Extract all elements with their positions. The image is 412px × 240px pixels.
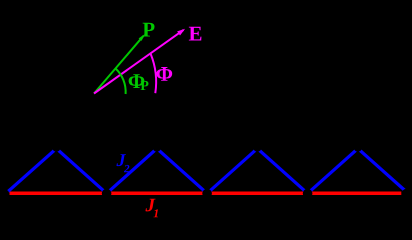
label P (polarization vector) [143,23,155,37]
arc Phi (magenta angle arc between E and horizontal) [151,54,156,93]
label J1 (J) [145,199,155,212]
node site 1 (gap in bonds) [0,189,9,199]
arrowhead of P arrow [139,34,145,41]
arc PhiP (green angle arc between P and horizontal) [115,68,125,94]
label J2 (J) [116,154,126,166]
label E (electric field vector) [189,27,202,41]
node site 3 (gap in bonds) [202,189,212,199]
wire: green arrow P line [94,36,144,94]
node site 5 (gap in bonds) [402,189,412,199]
label PhiP (Phi) [129,74,145,88]
label PhiP (subscript P) [141,81,149,90]
node apex 4 (gap in bonds) [354,143,362,151]
node site 2 (gap in bonds) [102,189,112,199]
wire: red J1 chain baseline [10,192,402,196]
node apex 3 (gap in bonds) [253,143,261,151]
node site 4 (gap in bonds) [303,189,313,199]
label J2 (subscript 2) [124,165,129,172]
arrowhead of E arrow [177,29,185,36]
node apex 2 (gap in bonds) [153,143,161,151]
wire: blue J2 zigzag bonds [6,149,406,194]
wire: magenta arrow E line [94,30,184,94]
label Phi [156,67,172,81]
label J1 (subscript 1) [153,209,158,217]
node apex 1 (gap in bonds) [52,143,60,151]
